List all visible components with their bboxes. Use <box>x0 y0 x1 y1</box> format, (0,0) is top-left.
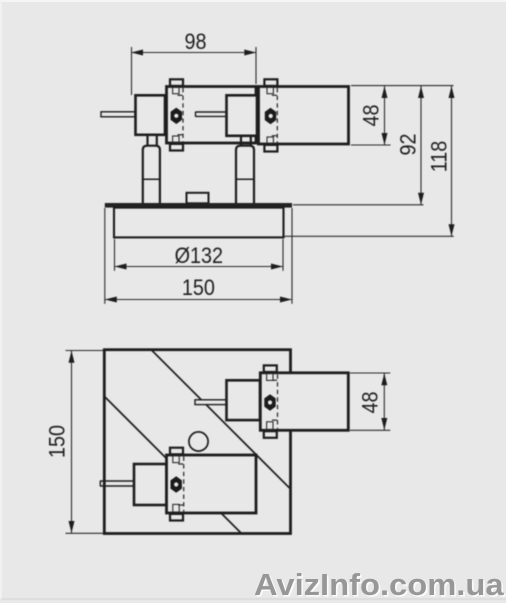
svg-text:48: 48 <box>360 104 384 126</box>
svg-text:92: 92 <box>397 133 421 155</box>
svg-text:150: 150 <box>182 276 215 300</box>
svg-text:Ø132: Ø132 <box>175 244 223 268</box>
svg-text:48: 48 <box>359 391 383 413</box>
svg-text:118: 118 <box>428 141 452 173</box>
svg-text:150: 150 <box>46 425 70 458</box>
svg-text:98: 98 <box>184 30 206 54</box>
